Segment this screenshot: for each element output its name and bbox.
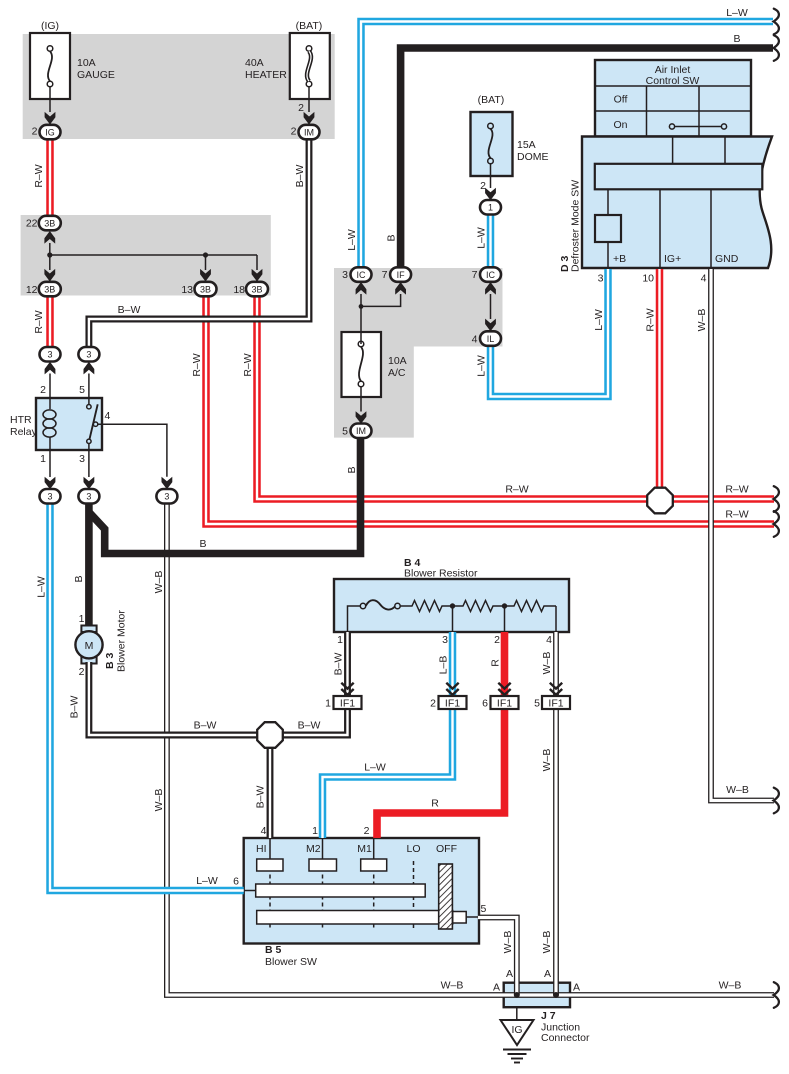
double chevron into IF1-6 [498,683,510,695]
svg-text:5: 5 [79,384,85,396]
svg-text:7: 7 [472,269,478,281]
wire R resistor pin2 to IF1-6 [501,632,509,696]
svg-text:Control SW: Control SW [646,75,700,87]
svg-text:On: On [613,119,627,131]
svg-text:IC: IC [357,270,367,280]
blower SW contact HI [257,859,283,871]
lead: relay pins 1,3 to connectors [50,450,89,477]
resistor junction node (pin2) [502,603,507,608]
lead: 3 ovals to relay pins 2,5 [50,374,89,399]
svg-text:B: B [199,538,206,550]
svg-text:W–B: W–B [502,931,514,954]
wire L-W from DOME connector 1 to 7 IC [487,214,495,268]
svg-text:3: 3 [86,492,91,502]
svg-text:5: 5 [481,903,487,915]
svg-text:HEATER: HEATER [245,69,287,81]
svg-text:IF1: IF1 [548,698,563,710]
svg-text:L–W: L–W [476,355,488,377]
svg-text:4: 4 [261,825,267,837]
svg-text:HTR: HTR [10,414,32,426]
connector oval 3 (relay pin3) [78,489,99,504]
wire W-B from relay pin4 connector to J7 (left riser) [167,503,774,995]
wire R from IF1-6 to blower SW M1 pin2 [377,709,505,838]
svg-text:L–W: L–W [196,875,218,887]
break symbol R-W lower [774,511,779,537]
blower SW B5 box [244,838,479,944]
double chevron into IF1-5 [550,683,562,695]
svg-text:Blower Resistor: Blower Resistor [404,568,478,580]
arrow into IM [304,112,315,125]
svg-text:+B: +B [613,253,626,265]
junction connector J7 box [504,983,570,1008]
svg-text:6: 6 [482,698,488,710]
arrow into 5 IM [356,411,367,424]
Air Inlet Control SW box [595,60,751,137]
svg-text:10: 10 [642,273,654,285]
svg-text:7: 7 [382,269,388,281]
svg-text:R–W: R–W [645,308,657,331]
wire L-W from IF1-2 to blower SW M2 pin1 [323,709,453,838]
ground symbol IG (J7) [501,1020,534,1045]
connector IF1-1 [334,696,362,710]
connector oval 3 (relay pin1) [40,489,61,504]
svg-text:3: 3 [598,273,604,285]
connector oval 2 IM [299,125,320,140]
svg-text:DOME: DOME [517,151,549,163]
svg-text:B: B [73,575,85,582]
svg-text:B: B [386,234,398,241]
svg-text:A: A [544,968,551,980]
svg-text:1: 1 [325,698,331,710]
svg-text:2: 2 [79,666,85,678]
fuse 15A DOME box [471,112,513,176]
blower SW contact M1 [361,859,387,871]
connector oval 3 (relay pin5) [78,347,99,362]
svg-text:B: B [346,466,358,473]
svg-text:5: 5 [342,426,348,438]
svg-text:3: 3 [164,492,169,502]
wire B-W from motor pin2 to connector IF1-1 [89,662,348,735]
fuse 10A A/C symbol [358,341,364,387]
svg-text:6: 6 [233,876,239,888]
svg-text:IG: IG [511,1024,522,1036]
svg-text:J 7: J 7 [541,1010,556,1022]
junction block 3B bus [50,243,257,270]
svg-text:R–W: R–W [242,353,254,376]
svg-text:L–W: L–W [726,7,748,19]
arrow into 3 (relay pin5) [84,362,95,375]
relay pin4 wire [98,424,167,477]
break symbol R-W upper [774,486,779,512]
svg-text:18: 18 [233,284,245,296]
svg-text:W–B: W–B [541,652,553,675]
svg-text:1: 1 [40,453,46,465]
connector oval 1 (dome) [480,200,501,215]
blower SW internal leads [244,838,479,917]
fuse 10A GAUGE box [30,33,70,99]
svg-text:22: 22 [26,218,38,230]
svg-text:3B: 3B [44,218,55,228]
svg-text:R–W: R–W [191,353,203,376]
double chevron into IF1-2 [446,683,458,695]
svg-text:IM: IM [356,426,366,436]
svg-text:4: 4 [546,634,552,646]
wire L-W from 4 IL to D3 +B pin3 [491,269,609,397]
svg-text:3: 3 [47,350,52,360]
svg-text:2: 2 [298,102,304,114]
svg-text:3: 3 [47,492,52,502]
svg-text:R–W: R–W [725,509,748,521]
fuse block shading (top) [23,34,335,139]
D3 small contact square [595,215,621,242]
svg-text:2: 2 [494,634,500,646]
Air Inlet switch contact (On row) [669,124,726,129]
svg-text:B–W: B–W [298,720,321,732]
connector oval 5 IM [351,424,372,439]
svg-text:2: 2 [480,180,486,192]
svg-text:IF1: IF1 [340,698,355,710]
svg-text:L–W: L–W [364,762,386,774]
svg-text:1: 1 [312,825,318,837]
svg-text:3: 3 [342,269,348,281]
svg-text:4: 4 [105,410,111,422]
svg-text:1: 1 [79,613,85,625]
lead: GAUGE fuse to IG connector [49,87,51,112]
svg-text:B–W: B–W [69,696,81,719]
lead: HEATER fuse to IM connector [308,87,310,112]
svg-text:2: 2 [32,126,38,138]
svg-text:5: 5 [534,698,540,710]
svg-text:13: 13 [181,284,193,296]
svg-text:15A: 15A [517,139,536,151]
svg-text:Connector: Connector [541,1032,590,1044]
wire B relay pin3 connector to blower motor [85,501,93,628]
wire W-B resistor pin4 to IF1-5 [553,632,559,696]
svg-text:R–W: R–W [33,310,45,333]
node on 3B bus (right) [203,252,208,257]
svg-text:B 3: B 3 [104,653,116,670]
svg-text:GAUGE: GAUGE [77,69,115,81]
wire R-W from D3 IG+ pin10 to junction [656,269,664,501]
svg-text:3: 3 [442,634,448,646]
svg-text:Blower Motor: Blower Motor [116,610,128,672]
wire L-B resistor pin3 to IF1-2 [449,632,457,696]
HTR relay box [36,398,102,450]
D3 internal lines [608,189,711,268]
arrow into 12 3B [44,269,55,282]
svg-text:A/C: A/C [388,367,406,379]
svg-text:GND: GND [715,253,739,265]
svg-text:B–W: B–W [255,786,267,809]
wire L-W from relay pin1 connector to blower SW pin6 [50,503,244,891]
connector oval 4 IL [480,331,501,346]
svg-text:2: 2 [40,384,46,396]
svg-text:1: 1 [488,203,493,213]
wire W-B from D3 GND pin4 to right edge [711,269,774,801]
lead: 7 IC to 4 IL [490,294,492,319]
svg-text:IM: IM [304,127,314,137]
break symbol L-W top [774,9,779,35]
svg-text:A: A [493,982,500,994]
resistor junction node (pin3) [450,603,455,608]
wire W-B from connector IF1-5 down to J7 [553,709,559,995]
blower SW contact M2 [309,859,337,871]
blower SW pin5 contact tab [453,912,467,924]
svg-text:M2: M2 [306,843,321,855]
arrow into 3 (relay pin1) [45,477,56,490]
fuse 40A HEATER box [290,33,330,99]
wire R-W from GAUGE fuse IG to 22 3B [46,139,54,216]
svg-text:M1: M1 [357,843,372,855]
svg-text:B–W: B–W [194,720,217,732]
svg-text:W–B: W–B [541,749,553,772]
fuse 40A HEATER symbol [306,46,312,87]
break symbol B top [774,35,779,61]
HTR relay switch [87,398,98,450]
arrow into 22 3B [44,231,55,244]
defroster mode SW D3 box (torn right edge) [582,137,772,269]
svg-text:IG+: IG+ [664,253,681,265]
lead: J7 to ground [516,1007,518,1020]
connector oval 18 3B [246,282,268,297]
svg-text:OFF: OFF [436,843,457,855]
svg-text:3B: 3B [200,284,211,294]
svg-text:R: R [490,659,502,667]
svg-text:10A: 10A [388,355,407,367]
arrow into 13 3B [200,269,211,282]
svg-text:4: 4 [472,334,478,346]
lead: A/C fuse to IM connector [360,387,362,412]
wire W-B from blower SW pin5 to J7 [478,918,517,996]
HTR relay coil [43,398,56,450]
svg-text:L–W: L–W [36,576,48,598]
node on 3B bus (left) [47,252,52,257]
svg-text:R: R [431,798,439,810]
svg-text:L–W: L–W [593,309,605,331]
connector oval 3 (relay pin2) [40,347,61,362]
svg-text:IF1: IF1 [497,698,512,710]
svg-text:10A: 10A [77,57,96,69]
connector oval 13 3B [195,282,217,297]
svg-text:A: A [573,982,580,994]
junction block 3B shading [21,215,271,296]
svg-text:Relay: Relay [10,426,38,438]
blower SW dashed position lines [270,861,414,929]
blower SW OFF hatched contact [439,864,453,929]
wire L-W top bus to 3 IC [361,22,773,271]
connector oval 3 (relay pin4) [156,489,177,504]
node below IC [359,304,364,309]
svg-text:(BAT): (BAT) [296,20,323,32]
arrow into 3 IC [356,282,367,295]
svg-text:2: 2 [364,825,370,837]
svg-text:IG: IG [45,127,55,137]
svg-text:L–W: L–W [476,227,488,249]
fuse 15A DOME symbol [488,123,494,164]
svg-text:L–B: L–B [438,656,450,675]
svg-text:IC: IC [486,270,496,280]
arrow into connector 1 (dome) [485,188,496,201]
wire R-W from 13 3B to lower bus [206,296,774,524]
svg-text:IL: IL [487,334,495,344]
D3 inner band [595,164,763,190]
fuse 10A GAUGE symbol [47,46,53,87]
svg-text:M: M [85,640,94,652]
svg-text:3: 3 [79,453,85,465]
svg-text:4: 4 [701,273,707,285]
svg-text:W–B: W–B [719,980,742,992]
connector IF1-5 [542,696,570,710]
arrow into 4 IL [485,319,496,332]
svg-text:B: B [733,33,740,45]
arrow into 3 (relay pin2) [45,362,56,375]
octagon junction (R-W bus) [647,488,673,514]
break symbol W-B right [774,788,779,814]
svg-text:HI: HI [256,843,267,855]
connector oval 2 IG [40,125,61,140]
node J7 right [553,992,559,998]
blower motor B3 [75,626,102,664]
svg-text:IF1: IF1 [445,698,460,710]
svg-text:(IG): (IG) [41,20,59,32]
resistor internal circuit [348,600,557,632]
lead: DOME fuse to connector 1 [490,164,492,188]
junction block IC/IF shading (L-shape) [334,268,503,438]
svg-text:W–B: W–B [153,789,165,812]
svg-text:B–W: B–W [333,653,345,676]
connector oval 7 IF [390,267,411,282]
arrow into 7 IC [485,282,496,295]
wire B from HEATER feed (top bus) to 7 IF [401,48,773,270]
wire B-W resistor pin1 to IF1-1 [344,632,351,696]
svg-text:R–W: R–W [505,484,528,496]
double chevron into IF1-1 [341,683,353,695]
svg-text:L–W: L–W [346,229,358,251]
blower SW slider bar 2 [257,911,453,925]
svg-text:W–B: W–B [153,571,165,594]
svg-text:IF: IF [397,270,406,280]
arrow into 3 (relay pin4) [162,477,173,490]
svg-text:B–W: B–W [294,165,306,188]
svg-text:12: 12 [26,284,38,296]
svg-text:W–B: W–B [696,309,708,332]
svg-text:B 5: B 5 [265,944,282,956]
svg-text:W–B: W–B [441,980,464,992]
fuse 10A A/C box [342,332,382,397]
arrow into IG [45,112,56,125]
svg-text:1: 1 [337,634,343,646]
node J7 left [514,992,520,998]
svg-text:LO: LO [406,843,420,855]
wire R-W from 12 3B to relay pin2 connector [46,296,54,347]
arrow into 18 3B [252,269,263,282]
wire B-W from 2 IM to relay pin5 connector [89,138,309,348]
svg-text:R–W: R–W [725,484,748,496]
wire B from 5 IM to blower motor branch [89,434,360,554]
connector oval 3 IC [351,267,372,282]
svg-text:Off: Off [614,94,628,106]
svg-text:2: 2 [291,126,297,138]
svg-text:W–B: W–B [726,784,749,796]
svg-text:(BAT): (BAT) [478,94,505,106]
arrow into 7 IF [395,282,406,295]
svg-text:3: 3 [86,350,91,360]
blower resistor B4 box [334,579,569,632]
svg-text:Blower SW: Blower SW [265,956,317,968]
wire R-W from 18 3B to upper bus [257,296,774,499]
connector oval 7 IC [480,267,501,282]
wire B-W from octagon junction to blower SW pin4 [267,735,274,838]
connector IF1-6 [491,696,519,710]
blower SW slider bar 1 [256,884,426,897]
connector IF1-2 [439,696,467,710]
connector oval 12 3B [39,282,61,297]
D3 top section dividers [673,137,725,164]
svg-text:40A: 40A [245,57,264,69]
svg-text:Defroster Mode SW: Defroster Mode SW [570,180,582,272]
connector oval 22 3B [39,216,61,231]
svg-text:R–W: R–W [33,164,45,187]
svg-text:2: 2 [430,698,436,710]
arrow into 3 (relay pin3) [84,477,95,490]
lead: IC/IF junction in block [361,294,401,344]
svg-text:B–W: B–W [118,304,141,316]
svg-text:3B: 3B [251,284,262,294]
svg-text:A: A [506,968,513,980]
svg-text:3B: 3B [44,284,55,294]
octagon junction (blower B-W) [257,722,283,748]
break symbol W-B bottom [774,982,779,1008]
svg-text:W–B: W–B [541,931,553,954]
